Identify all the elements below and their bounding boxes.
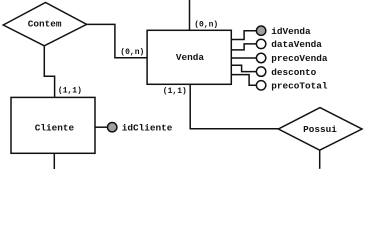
svg-text:idCliente: idCliente bbox=[122, 122, 173, 133]
svg-text:Contem: Contem bbox=[28, 19, 62, 30]
attribute idVenda (key, gray circle) bbox=[256, 26, 311, 37]
svg-text:(0,n): (0,n) bbox=[194, 21, 218, 30]
svg-text:desconto: desconto bbox=[271, 67, 316, 78]
svg-text:(1,1): (1,1) bbox=[163, 87, 187, 96]
wire Contem right tip to Venda left edge bbox=[87, 24, 148, 57]
svg-text:(1,1): (1,1) bbox=[58, 87, 82, 96]
wire Venda to idVenda bbox=[231, 31, 256, 40]
wire Venda bottom edge to Possui left tip bbox=[190, 84, 278, 129]
entity Cliente bbox=[11, 97, 95, 153]
entity Venda bbox=[147, 30, 231, 84]
attribute precoTotal bbox=[256, 81, 327, 92]
wire Venda to dataVenda bbox=[231, 44, 256, 50]
wire Venda to desconto bbox=[231, 65, 256, 71]
attribute idCliente (key, gray circle) bbox=[108, 122, 173, 133]
wire Venda top edge to image top bbox=[189, 0, 191, 30]
svg-text:Cliente: Cliente bbox=[35, 123, 75, 134]
wire Venda to precoVenda bbox=[231, 57, 256, 59]
relationship diamond Possui bbox=[278, 108, 362, 151]
svg-text:precoVenda: precoVenda bbox=[271, 53, 328, 64]
svg-text:precoTotal: precoTotal bbox=[271, 81, 328, 92]
svg-text:(0,n): (0,n) bbox=[120, 48, 144, 57]
wire Venda to precoTotal bbox=[231, 75, 256, 86]
wire Contem bottom vertex to Cliente top edge bbox=[44, 46, 54, 98]
wire Cliente bottom edge dangling down bbox=[53, 153, 55, 169]
attribute dataVenda bbox=[256, 39, 322, 50]
attribute desconto bbox=[256, 67, 316, 78]
wire Cliente right edge to idCliente attribute bbox=[95, 126, 107, 128]
svg-text:dataVenda: dataVenda bbox=[271, 39, 322, 50]
relationship diamond Contem bbox=[3, 3, 86, 46]
svg-text:Venda: Venda bbox=[176, 52, 205, 63]
wire Possui bottom vertex dangling down bbox=[319, 150, 321, 169]
svg-text:Possui: Possui bbox=[303, 124, 337, 135]
attribute precoVenda bbox=[256, 53, 327, 64]
svg-text:idVenda: idVenda bbox=[271, 26, 311, 37]
